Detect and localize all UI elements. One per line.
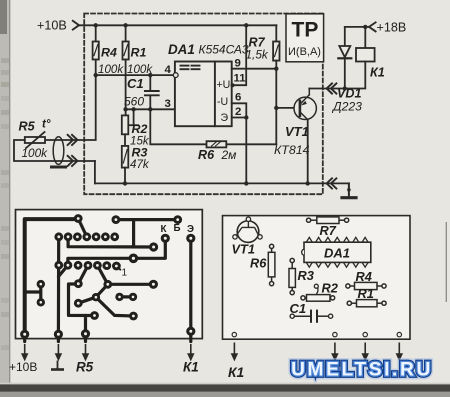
wire pin2 to ground bus (232, 118, 247, 184)
svg-text:1: 1 (122, 268, 128, 279)
svg-text:47k: 47k (130, 158, 150, 171)
resistor R6 feedback (150, 109, 276, 147)
svg-text:R6: R6 (250, 256, 267, 271)
arrow R5 out (83, 344, 88, 360)
svg-text:1,5k: 1,5k (246, 48, 269, 62)
wire collector (307, 120, 309, 184)
pads row2 (54, 261, 120, 271)
node K1 top (363, 25, 367, 29)
node VD1 bottom (343, 86, 347, 90)
trace aux L (25, 284, 41, 302)
svg-text:2: 2 (235, 106, 241, 118)
pin 4 inversion circle (173, 73, 178, 78)
svg-text:4: 4 (165, 64, 172, 76)
trace M5-M6 (96, 284, 108, 297)
resistor R7 board (307, 217, 349, 224)
trace top bar (116, 220, 178, 247)
bottom dark band (0, 384, 450, 391)
trace C shape (69, 284, 95, 342)
arrow out 3 (363, 343, 368, 360)
label ground bottom (51, 361, 64, 370)
wire R5 upper branch (45, 75, 96, 140)
wire base (276, 107, 299, 109)
pads row1 (54, 232, 119, 241)
svg-text:VT1: VT1 (232, 242, 255, 257)
trace +10V (25, 219, 78, 334)
DA1 pins bottom (306, 262, 368, 267)
trace row1 horizontal (68, 237, 154, 247)
svg-text:C1: C1 (127, 76, 144, 91)
node C1 top (148, 73, 152, 77)
connector arrows R5 upper (68, 135, 78, 145)
ground bus wire (95, 182, 349, 184)
svg-text:R5: R5 (19, 120, 36, 134)
arrow +10V out (22, 344, 27, 360)
connector +10V (73, 21, 79, 30)
svg-text:Д223: Д223 (331, 100, 362, 114)
trimmer resistor R2 (122, 109, 138, 146)
wire +10V rail (79, 24, 276, 26)
diode VD1 (338, 27, 351, 89)
resistor R6 board (268, 244, 275, 285)
svg-text:-U: -U (217, 96, 228, 108)
svg-text:6: 6 (235, 92, 241, 104)
svg-text:Б: Б (174, 223, 181, 234)
svg-text:100k: 100k (98, 63, 124, 76)
svg-text:R6: R6 (198, 148, 215, 162)
node R1-R2 (123, 107, 127, 111)
wire +18V top (345, 26, 369, 28)
svg-text:R7: R7 (320, 223, 337, 238)
svg-text:+18В: +18В (377, 21, 407, 35)
svg-text:R3: R3 (298, 268, 314, 283)
svg-text:UMELTSI.RU: UMELTSI.RU (291, 360, 433, 381)
dashed border of device (84, 14, 323, 195)
svg-text:Э: Э (187, 224, 194, 235)
node pin11 (231, 83, 235, 87)
svg-text:100k: 100k (22, 146, 49, 160)
node base branch (274, 106, 278, 110)
svg-text:DA1: DA1 (324, 246, 350, 261)
trace bottom stubs (25, 334, 59, 341)
node collector bus (306, 181, 310, 185)
wire emitter (309, 88, 345, 90)
arrow out 4 (397, 343, 402, 360)
svg-text:R5: R5 (76, 360, 94, 375)
svg-text:C1: C1 (290, 301, 307, 316)
PCB_RIGHT (223, 216, 411, 380)
DA1 pins top (306, 237, 368, 242)
resistor R4 board (346, 282, 386, 289)
trimmer R2 board (301, 284, 335, 301)
comparator DA1 box (175, 62, 232, 127)
svg-text:К1: К1 (228, 365, 244, 380)
trace Q5 diag (97, 265, 107, 284)
resistor R3 (122, 146, 129, 184)
trace M6-M11 (96, 297, 133, 316)
svg-text:R4: R4 (101, 46, 117, 60)
trace Q2 diag (59, 265, 68, 276)
svg-text:+10В: +10В (9, 360, 37, 374)
resistor R1 (123, 25, 129, 115)
node R3 bus (123, 181, 127, 185)
node pin2 bus (244, 181, 248, 185)
trace ground vertical (57, 237, 60, 334)
transistor VT1 outline (233, 217, 262, 242)
svg-text:11: 11 (234, 73, 247, 85)
trace top diag (78, 219, 87, 237)
trace E vertical (189, 238, 192, 341)
svg-text:И(В,А): И(В,А) (288, 46, 321, 58)
left margin strip (0, 0, 10, 397)
node R4 top (94, 23, 98, 27)
svg-text:+10В: +10В (37, 19, 67, 33)
connector arrows R5 lower (68, 156, 78, 166)
node R2 wiper (131, 107, 135, 111)
wire pin3 net (126, 108, 175, 110)
pads top and middle (20, 214, 195, 339)
svg-text:К: К (161, 224, 167, 235)
svg-text:ТР: ТР (292, 19, 319, 42)
board holes bottom (232, 332, 401, 336)
emitter arrow VT1 (301, 101, 307, 106)
svg-text:КТ814: КТ814 (274, 143, 310, 157)
node output R7 (274, 67, 278, 71)
right margin rule (445, 222, 447, 302)
relay coil K1 (345, 27, 375, 89)
trace M6-M7 (78, 297, 96, 303)
connector arrows emitter (327, 83, 337, 93)
resistor R3 board (289, 258, 295, 294)
comparator symbol == (181, 66, 200, 70)
node pin2-pin6 (244, 115, 248, 119)
svg-text:2м: 2м (221, 148, 237, 162)
bottom page edge line (0, 383, 450, 385)
cable shield bar (52, 166, 66, 169)
thermistor R5 (14, 132, 95, 183)
capacitor C1 (145, 75, 159, 109)
node R4-pin4 (94, 73, 98, 77)
arrow K1 right board (232, 343, 237, 360)
ground symbol (342, 183, 356, 197)
trace K pad (133, 238, 165, 258)
svg-text:К554СА3: К554СА3 (199, 43, 249, 57)
trace pin1 tail (116, 266, 120, 269)
node R1 top (123, 23, 127, 27)
svg-text:R2: R2 (322, 281, 338, 296)
connector arrows ground (327, 178, 337, 188)
resistor R1 board (347, 300, 386, 307)
svg-text:К1: К1 (370, 66, 385, 80)
PCB_LEFT (9, 210, 202, 375)
trace M5 horizontal (108, 283, 154, 286)
svg-text:3: 3 (165, 98, 171, 110)
wire pin4 net (96, 74, 174, 76)
connector +18V (369, 22, 376, 31)
svg-text:t°: t° (42, 119, 51, 131)
wire pin6 (232, 103, 247, 117)
svg-text:+U: +U (217, 79, 231, 91)
wire pin11 supply (232, 25, 247, 85)
resistor R7 (273, 25, 279, 68)
svg-text:560: 560 (124, 95, 144, 109)
bottom gray band (0, 392, 450, 397)
trace Q2 to M2 (68, 258, 133, 265)
IC DA1 board (302, 242, 371, 262)
svg-text:Э: Э (221, 112, 229, 124)
node +U branch (244, 23, 248, 27)
capacitor C1 board (290, 310, 333, 323)
trace pad pair (120, 295, 134, 298)
svg-text:К1: К1 (183, 360, 199, 375)
svg-text:R4: R4 (356, 269, 372, 284)
arrow out 2 (332, 343, 337, 360)
arrow K1 out (188, 344, 193, 360)
trace Q4 diag (78, 265, 88, 283)
svg-text:9: 9 (235, 58, 241, 70)
svg-text:R1: R1 (131, 46, 147, 60)
svg-text:VT1: VT1 (285, 124, 309, 139)
watermark umeltsi.ru (291, 360, 433, 381)
node C1 bottom (148, 107, 152, 111)
left board outline (16, 210, 203, 339)
load box TP (286, 14, 324, 62)
resistor R4 (93, 25, 99, 75)
svg-text:R1: R1 (358, 286, 374, 301)
transistor VT1 (294, 89, 316, 120)
cable oval (53, 137, 64, 165)
arrow ground out (56, 344, 61, 360)
wire output to base column (275, 69, 277, 145)
wire pin9 output (232, 68, 277, 70)
svg-text:DA1: DA1 (168, 42, 195, 57)
right board outline (223, 216, 411, 340)
pad holes (23, 217, 192, 336)
